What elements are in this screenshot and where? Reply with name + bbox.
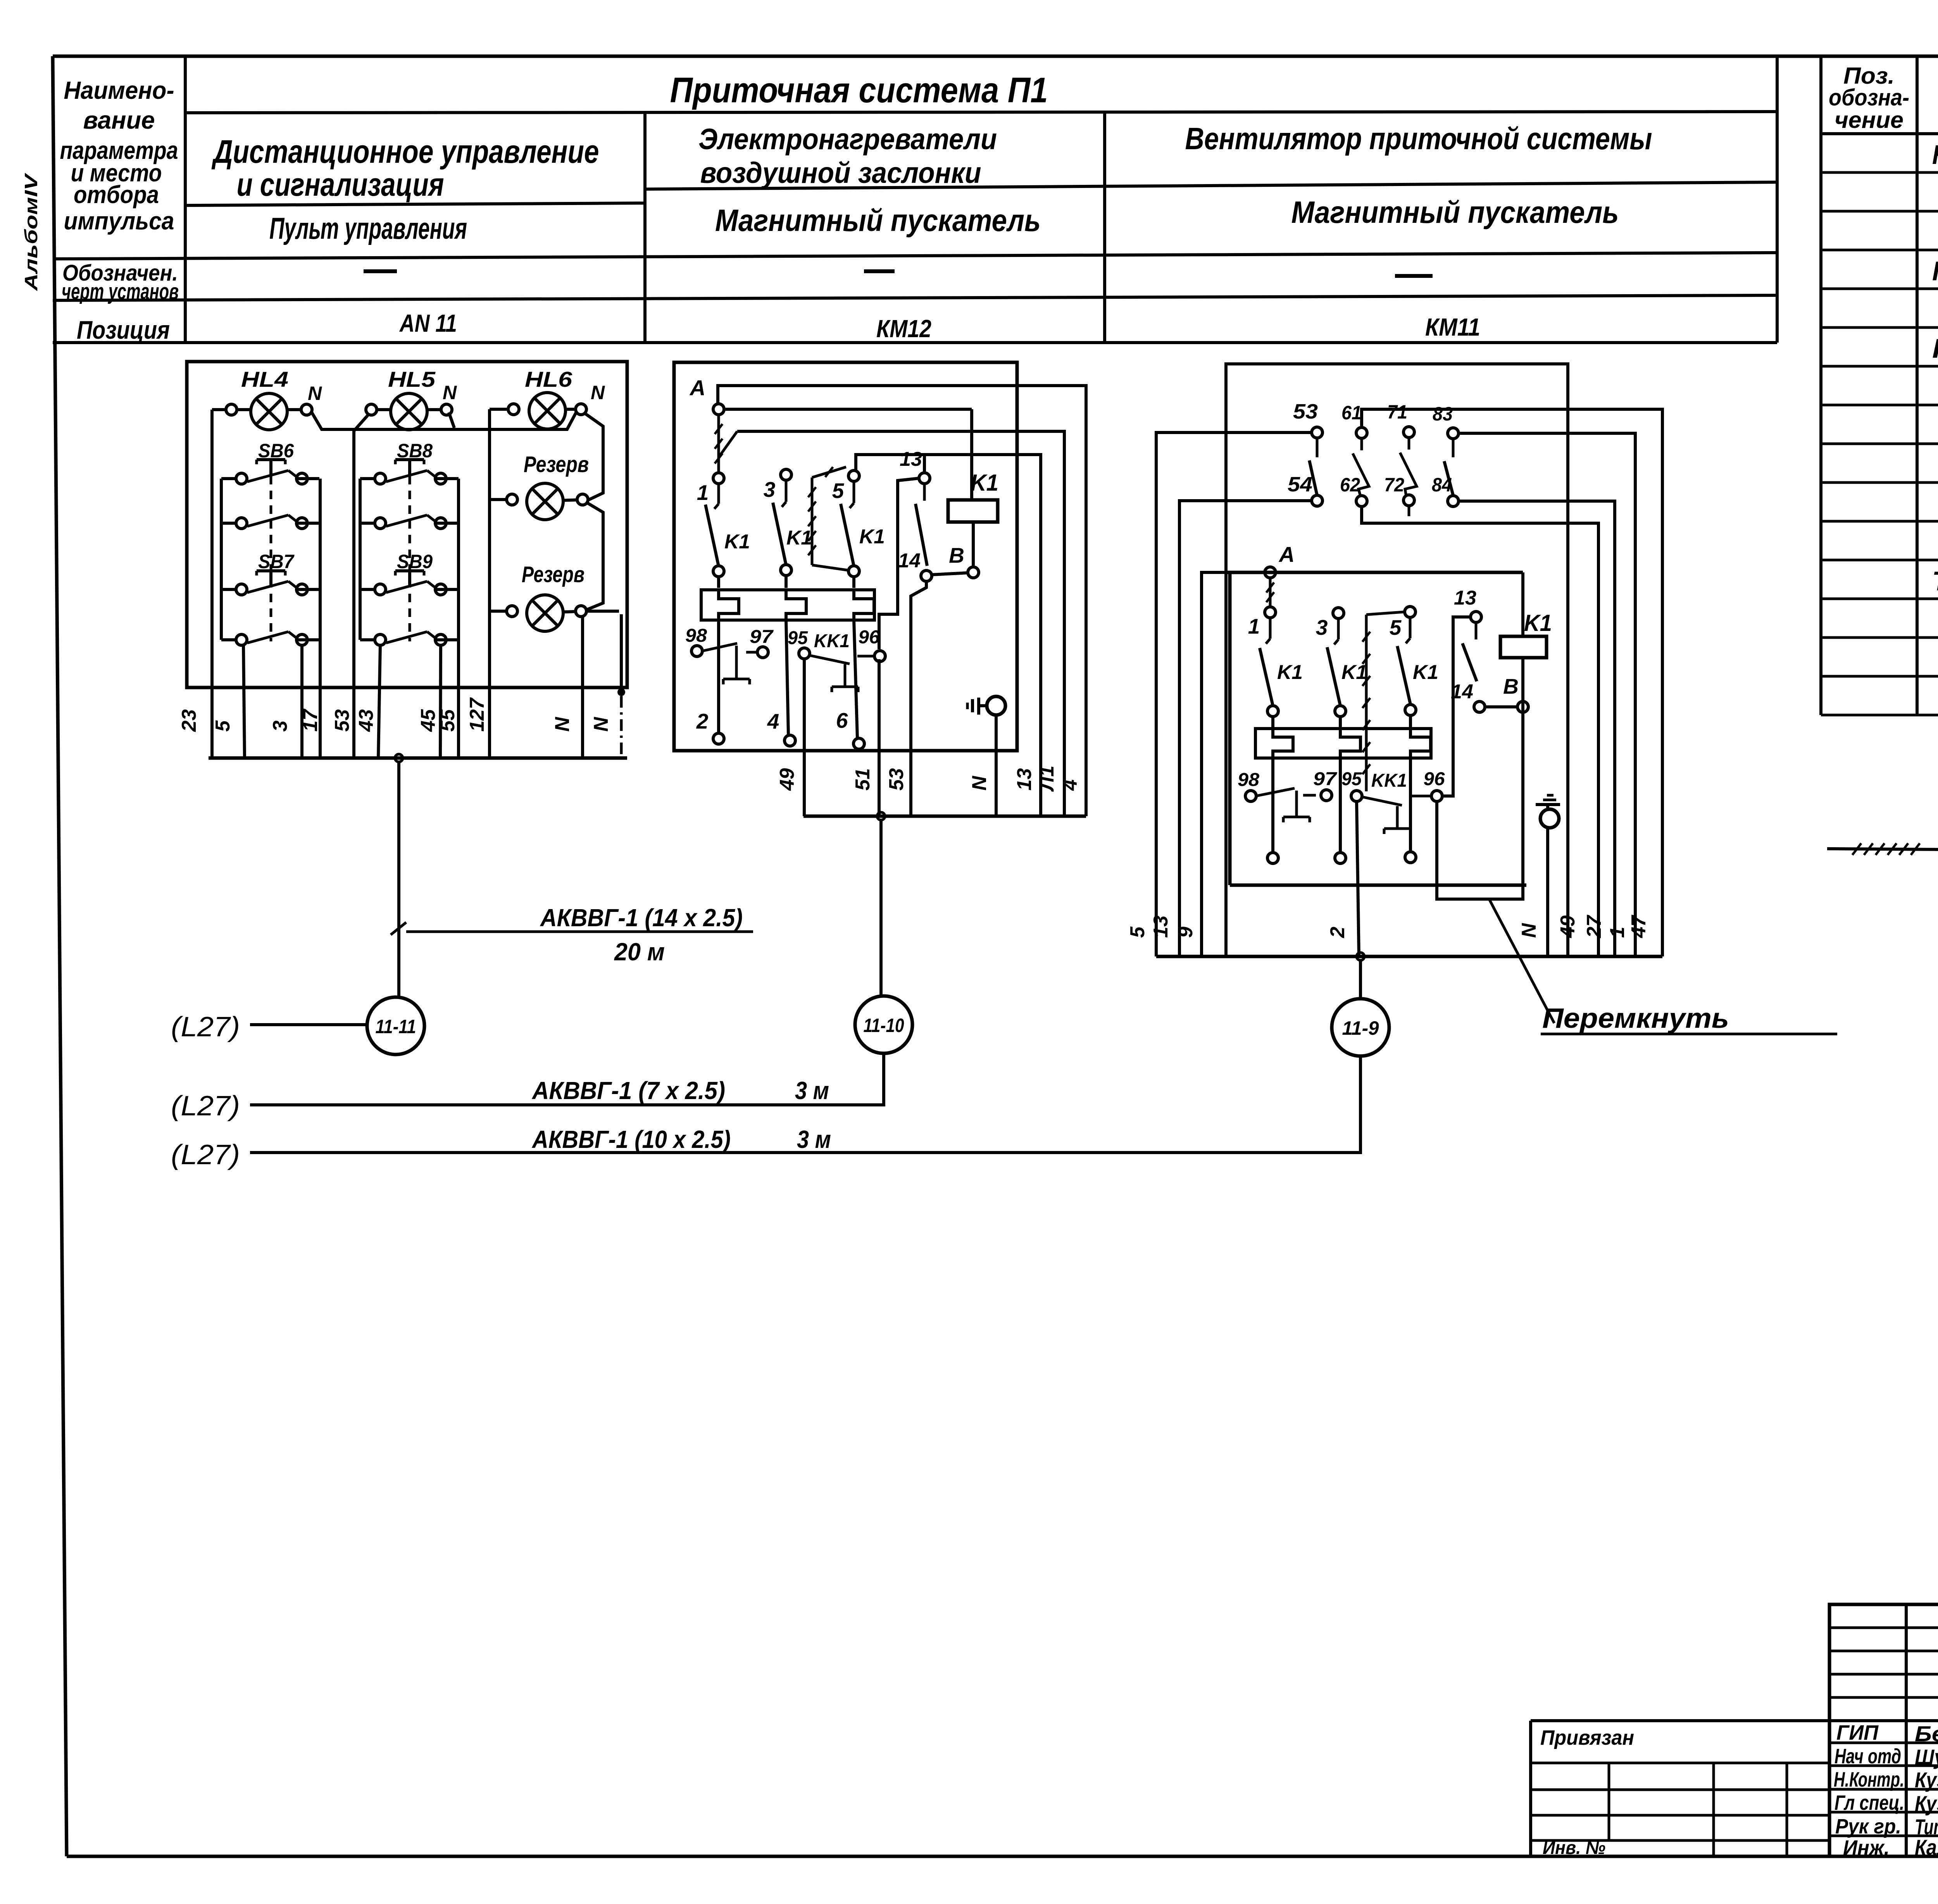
- SB9 contact row 2: [375, 634, 386, 645]
- svg-text:43: 43: [355, 709, 378, 732]
- svg-text:SB7: SB7: [258, 551, 295, 572]
- phase 1 tail to terminal 2: [717, 620, 720, 733]
- sheet frame: [53, 56, 67, 1856]
- svg-text:Наимено-: Наимено-: [64, 76, 174, 104]
- svg-text:Вентилятор приточной системы: Вентилятор приточной системы: [1185, 121, 1652, 156]
- wire: [490, 498, 507, 501]
- svg-text:27: 27: [1583, 915, 1605, 938]
- svg-text:54: 54: [1288, 473, 1312, 496]
- svg-text:53: 53: [331, 709, 353, 732]
- cable circle 11-10: [855, 996, 912, 1053]
- wire: [563, 612, 576, 612]
- svg-text:1: 1: [1248, 614, 1260, 638]
- svg-text:Резерв: Резерв: [522, 562, 585, 587]
- svg-text:Л1: Л1: [1036, 765, 1058, 792]
- svg-text:АКВВГ-1 (10 х 2.5): АКВВГ-1 (10 х 2.5): [531, 1125, 731, 1153]
- svg-text:72: 72: [1384, 474, 1404, 496]
- svg-text:K1: K1: [971, 470, 998, 496]
- junction on bus: [395, 754, 403, 762]
- svg-text:13: 13: [1150, 915, 1172, 938]
- wire 13 loop to 54: [1179, 501, 1312, 956]
- svg-text:Магнитный пускатель: Магнитный пускатель: [715, 203, 1041, 238]
- svg-text:Гл спец.: Гл спец.: [1835, 1791, 1904, 1814]
- ground terminal N block3: [1536, 803, 1560, 806]
- svg-text:5: 5: [832, 479, 845, 503]
- terminal 3: [1333, 608, 1344, 619]
- terminal 14: [1474, 701, 1485, 712]
- actuator KK1 block3: [1396, 806, 1399, 829]
- svg-text:51: 51: [852, 768, 874, 791]
- wire 49 from 95: [803, 658, 806, 816]
- svg-text:61: 61: [1341, 402, 1362, 424]
- header table grid: [184, 56, 187, 343]
- block3 terminal bus: [1156, 955, 1662, 958]
- svg-text:B: B: [949, 543, 964, 567]
- svg-text:14: 14: [898, 550, 921, 572]
- wire: [566, 408, 576, 411]
- header: dashes: [364, 269, 397, 273]
- svg-text:95: 95: [1341, 769, 1362, 789]
- terminal 62: [1356, 496, 1367, 507]
- thermal relay KK1 heaters block3: [1255, 729, 1431, 758]
- wire: [717, 576, 720, 588]
- svg-text:HL5: HL5: [388, 367, 436, 391]
- svg-text:HL4: HL4: [241, 367, 288, 391]
- svg-text:Инв. №: Инв. №: [1543, 1838, 1605, 1858]
- contactor pole K1-3: [1409, 617, 1412, 638]
- pushbutton SB7 actuator: [257, 569, 285, 572]
- terminal A: [713, 404, 724, 415]
- demounted wire A-1 (hatched): [717, 414, 720, 473]
- svg-text:отбора: отбора: [74, 181, 159, 208]
- block2 terminal bus: [803, 815, 1086, 818]
- wire 43: [378, 645, 380, 758]
- svg-text:Резерв: Резерв: [524, 452, 589, 477]
- wire: [490, 610, 507, 613]
- actuator 98-97 block3: [1295, 791, 1298, 817]
- junction on bus block2: [877, 812, 885, 820]
- block2 enclosure box: [674, 362, 1017, 751]
- svg-text:АльбомIV: АльбомIV: [21, 173, 41, 291]
- svg-text:KK1: KK1: [814, 631, 850, 651]
- wire 3: [300, 645, 303, 758]
- phase 2 tail to terminal 4: [786, 620, 788, 735]
- reserve lamp 1 right terminal: [577, 494, 588, 505]
- svg-text:A: A: [1278, 542, 1295, 567]
- switch 61-62: [1353, 453, 1369, 496]
- Привязан table: [1529, 1721, 1532, 1856]
- svg-text:17: 17: [299, 708, 322, 732]
- svg-text:Электронагреватели: Электронагреватели: [698, 123, 997, 156]
- switch 71-72: [1400, 453, 1417, 496]
- terminal B: [1517, 701, 1528, 712]
- terminal 1: [713, 473, 724, 484]
- svg-text:23: 23: [178, 709, 200, 732]
- svg-text:Калмыков: Калмыков: [1915, 1835, 1938, 1859]
- wire: [563, 500, 578, 500]
- svg-text:(L27): (L27): [171, 1011, 240, 1042]
- wire 5 loop to switch 53: [1156, 432, 1312, 956]
- leader line: [1490, 900, 1554, 1023]
- svg-text:Позиция: Позиция: [77, 315, 170, 344]
- svg-text:Труба стальная ГОСТ 10704 -: Труба стальная ГОСТ 10704 - 76*: [1932, 566, 1938, 596]
- svg-text:Провод ПВ1, ГОСТ 6323-79*: Провод ПВ1, ГОСТ 6323-79*: [1932, 256, 1938, 286]
- wire 47 loop from 83: [1458, 433, 1635, 956]
- svg-text:97: 97: [1313, 769, 1338, 789]
- svg-text:черт установ: черт установ: [62, 279, 179, 304]
- terminal A: [1265, 567, 1276, 578]
- svg-text:AN 11: AN 11: [399, 309, 457, 337]
- terminal 54: [1312, 495, 1322, 506]
- svg-text:5: 5: [1126, 926, 1149, 938]
- svg-text:1: 1: [1606, 927, 1629, 938]
- svg-text:4: 4: [767, 709, 779, 733]
- reserve lamp 1 left terminal: [507, 494, 517, 505]
- wire 23 vertical: [210, 410, 214, 758]
- wire 17 right side: [319, 479, 322, 758]
- junction on bus block3: [1357, 953, 1364, 960]
- wire 53 (HL5 feed): [354, 414, 369, 758]
- svg-text:53: 53: [1293, 400, 1318, 423]
- wire N stub right: [586, 610, 619, 613]
- svg-text:2: 2: [1326, 927, 1349, 938]
- svg-text:9: 9: [1174, 927, 1197, 938]
- lamp HL4 feed wire: [212, 408, 226, 411]
- contactor pole K1-3: [853, 481, 855, 503]
- svg-text:Кабели, ГОСТ 1508 - 78 *Е: Кабели, ГОСТ 1508 - 78 *Е: [1932, 333, 1938, 364]
- wire 4 loop (A to cable): [718, 386, 1086, 816]
- wire 127 vertical: [488, 409, 491, 758]
- spec table grid: [1819, 56, 1822, 715]
- lamp HL4 left terminal: [226, 404, 237, 415]
- wire 51 from 96: [878, 659, 881, 816]
- terminal 53: [1312, 427, 1322, 438]
- wire 55 right side: [457, 479, 460, 758]
- drop wire to cable 11-11: [397, 762, 400, 997]
- wire 1 loop from 84: [1458, 501, 1615, 956]
- aux contact 13-14: [916, 504, 927, 566]
- wire: [376, 408, 391, 411]
- svg-text:11-11: 11-11: [376, 1016, 416, 1037]
- wire 14-B: [931, 573, 968, 575]
- block1 terminal bus: [209, 756, 627, 760]
- svg-text:84: 84: [1432, 474, 1452, 496]
- svg-text:3 м: 3 м: [797, 1125, 831, 1153]
- pushbutton SB8 actuator: [395, 458, 424, 461]
- phase 3 tail to terminal 6: [854, 620, 857, 738]
- svg-text:воздушной заслонки: воздушной заслонки: [700, 157, 981, 190]
- svg-text:98: 98: [1238, 770, 1259, 790]
- svg-text:K1: K1: [1341, 661, 1367, 684]
- svg-text:Белоус: Белоус: [1915, 1721, 1938, 1746]
- box right edge / coil chain: [1521, 572, 1524, 636]
- SB6 contact row 2: [236, 518, 247, 529]
- svg-text:62: 62: [1340, 474, 1360, 496]
- terminal 84: [1448, 496, 1459, 507]
- wire 53 from 14: [911, 581, 926, 816]
- SB8 contact row 1: [375, 473, 386, 484]
- svg-text:97: 97: [750, 627, 774, 647]
- svg-text:N: N: [1518, 923, 1540, 938]
- SB7 contact row 1: [236, 584, 247, 595]
- wire 96 to 13: [879, 478, 919, 649]
- aux contact 13-14: [1462, 643, 1477, 681]
- svg-text:N: N: [591, 382, 605, 403]
- svg-text:Магнитный пускатель: Магнитный пускатель: [1291, 195, 1619, 229]
- svg-text:импульса: импульса: [64, 207, 174, 235]
- wire (L27) row2 to 11-10: [250, 1055, 884, 1105]
- svg-text:K1: K1: [724, 531, 750, 553]
- contactor pole K1-1: [1269, 617, 1272, 639]
- wire 14-B: [1485, 705, 1518, 708]
- svg-text:4: 4: [1059, 779, 1081, 791]
- svg-text:2: 2: [696, 709, 709, 733]
- wire A to coil K1: [724, 408, 972, 411]
- svg-text:53: 53: [885, 768, 908, 791]
- svg-text:чение: чение: [1835, 107, 1904, 133]
- cable label line: [406, 930, 753, 933]
- svg-text:11-10: 11-10: [864, 1015, 904, 1036]
- block1 enclosure box: [187, 362, 627, 688]
- svg-text:Кузнецов: Кузнецов: [1915, 1768, 1938, 1792]
- svg-text:N: N: [590, 717, 612, 732]
- lamp HL6: [529, 393, 566, 429]
- svg-text:13: 13: [1454, 587, 1476, 609]
- terminal 61: [1356, 427, 1367, 438]
- contact box left wire: [220, 479, 223, 640]
- jumper diagonal to Л1 line: [719, 431, 737, 457]
- contactor pole K1-1: [717, 483, 720, 504]
- svg-text:A: A: [689, 376, 705, 400]
- wire: [427, 408, 441, 411]
- svg-text:98: 98: [685, 625, 707, 646]
- svg-text:и сигнализация: и сигнализация: [237, 166, 444, 203]
- wire (L27) row3 to 11-9: [250, 1057, 1360, 1153]
- SB8/SB9 link dashed: [409, 476, 411, 641]
- wire B to coil: [972, 522, 975, 567]
- svg-text:Перемкнуть: Перемкнуть: [1542, 1003, 1729, 1034]
- thermal relay KK1 heaters: [701, 590, 874, 620]
- svg-text:K1: K1: [786, 527, 812, 549]
- terminal 83: [1448, 428, 1459, 439]
- svg-text:Рук гр.: Рук гр.: [1835, 1815, 1901, 1838]
- wire 13 top line: [856, 455, 1041, 816]
- terminal 71: [1403, 427, 1414, 438]
- svg-text:14: 14: [1451, 681, 1473, 703]
- svg-text:20 м: 20 м: [614, 938, 665, 966]
- svg-text:АКВВГ-1 (7 х 2.5): АКВВГ-1 (7 х 2.5): [531, 1077, 725, 1104]
- svg-text:K1: K1: [1413, 661, 1438, 684]
- svg-text:127: 127: [466, 697, 488, 732]
- wire: [236, 408, 251, 411]
- wire 45: [440, 645, 441, 758]
- pushbutton SB9 actuator: [395, 569, 424, 572]
- svg-text:6: 6: [836, 708, 848, 732]
- wire: [287, 408, 302, 411]
- svg-text:N: N: [551, 717, 574, 732]
- svg-text:обозна-: обозна-: [1829, 84, 1909, 110]
- svg-text:(L27): (L27): [171, 1091, 240, 1122]
- terminal 13: [919, 473, 930, 484]
- lamp HL4: [251, 393, 287, 430]
- wire 49 outer loop: [1226, 364, 1568, 956]
- lamp HL5 right terminal: [441, 404, 452, 415]
- demounted wire A-1 hatched: [1269, 577, 1272, 607]
- actuator 98-97: [735, 646, 738, 679]
- svg-text:3 м: 3 м: [795, 1077, 829, 1104]
- svg-text:КМ12: КМ12: [876, 315, 931, 343]
- terminal 1: [1265, 607, 1276, 618]
- svg-text:5: 5: [212, 720, 234, 732]
- svg-text:96: 96: [1424, 769, 1445, 789]
- wire 27 loop from 62: [1362, 506, 1598, 956]
- svg-text:96: 96: [859, 627, 880, 648]
- jumper wire (Перемкнуть): [1437, 801, 1523, 899]
- aux contact 98-97 block3: [1245, 791, 1256, 801]
- demounted hatched wire block3: [1365, 615, 1368, 791]
- contactor pole K1-2: [785, 480, 788, 502]
- lamp HL5 left terminal: [366, 404, 377, 415]
- drop wire to cable 11-9: [1359, 960, 1362, 999]
- svg-text:(L27): (L27): [171, 1139, 240, 1170]
- reserve lamp 2 right terminal: [576, 606, 586, 617]
- aux contact 95-96 KK1: [799, 648, 810, 659]
- svg-text:КМ11: КМ11: [1425, 313, 1480, 341]
- wire 5: [243, 645, 245, 758]
- svg-text:Инж.: Инж.: [1843, 1836, 1890, 1859]
- cable circle 11-11: [367, 997, 424, 1055]
- svg-text:N: N: [308, 383, 322, 404]
- stub 72: [1408, 505, 1410, 516]
- svg-text:95: 95: [788, 628, 808, 648]
- reserve lamp 2 left terminal: [507, 606, 517, 617]
- svg-text:47: 47: [1628, 915, 1650, 938]
- svg-text:11-9: 11-9: [1342, 1017, 1379, 1039]
- coil K1: [948, 500, 998, 522]
- wire to 61 top line: [1362, 409, 1662, 956]
- N riser to reserve lamp 2: [586, 503, 603, 610]
- svg-text:3: 3: [269, 720, 291, 732]
- terminal 14: [921, 570, 932, 581]
- svg-text:Привязан: Привязан: [1540, 1726, 1634, 1749]
- svg-text:Пульт управления: Пульт управления: [269, 211, 467, 245]
- svg-text:ГИП: ГИП: [1836, 1721, 1879, 1744]
- svg-text:N: N: [968, 775, 991, 791]
- svg-text:5: 5: [1390, 615, 1402, 639]
- svg-text:N: N: [443, 382, 457, 403]
- svg-text:вание: вание: [83, 106, 155, 134]
- wire A line / box top: [1225, 571, 1523, 574]
- wire 2 from 95: [1357, 801, 1359, 956]
- terminal 3: [781, 469, 791, 480]
- wire 96 to 13: [1442, 617, 1471, 796]
- svg-text:K1: K1: [859, 526, 885, 548]
- cable circle 11-9: [1332, 999, 1389, 1056]
- terminal 5: [1405, 607, 1416, 617]
- title block stamp grid: [1829, 1604, 1938, 1856]
- terminal 72: [1403, 495, 1414, 506]
- lamp HL4 right terminal: [301, 404, 312, 415]
- phase tails to dead terminals: [1271, 758, 1274, 853]
- SB7 contact row 2: [236, 634, 247, 645]
- junction dot N: [620, 614, 623, 689]
- svg-text:Шунский: Шунский: [1915, 1745, 1938, 1769]
- coil K1 block3: [1500, 636, 1547, 658]
- svg-text:Коробка соединительная, ТУ36: Коробка соединительная, ТУ36.1753-75: [1932, 140, 1938, 170]
- svg-text:Кузнецов: Кузнецов: [1915, 1791, 1938, 1816]
- N riser to reserve lamps: [585, 413, 603, 500]
- wire stub HL5 right to N bus: [449, 412, 454, 428]
- legend demount line: [1827, 849, 1938, 849]
- svg-text:K1: K1: [1277, 661, 1303, 684]
- svg-text:3: 3: [1316, 615, 1328, 639]
- demounted hatched wire (pole3): [811, 477, 814, 565]
- pushbutton SB6 actuator: [257, 458, 285, 461]
- svg-text:HL6: HL6: [525, 367, 572, 391]
- wire 9 loop to A: [1202, 572, 1225, 956]
- svg-text:13: 13: [1013, 768, 1036, 791]
- SB8 contact row 2: [375, 518, 386, 529]
- aux contact 95-96 KK1 block3: [1351, 791, 1362, 801]
- ground terminal N: [966, 703, 969, 709]
- HL6 left feed: [490, 408, 509, 411]
- contact box left wire: [359, 479, 362, 640]
- terminal 13: [1471, 612, 1481, 622]
- drop wire to cable 11-10: [879, 820, 883, 996]
- svg-text:1: 1: [697, 481, 709, 505]
- dash-dot demounted N tail: [620, 696, 623, 758]
- svg-text:SB9: SB9: [397, 551, 433, 572]
- svg-text:Н.Контр.: Н.Контр.: [1834, 1768, 1904, 1791]
- svg-text:55: 55: [436, 709, 459, 732]
- svg-text:49: 49: [1557, 915, 1579, 938]
- cable slash mark: [391, 922, 406, 935]
- stub 13 terminal: [923, 455, 926, 473]
- svg-text:KK1: KK1: [1371, 770, 1407, 791]
- reserve lamp 2: [527, 595, 563, 631]
- svg-text:Дистанционное управление: Дистанционное управление: [212, 133, 599, 170]
- contactor pole K1-2: [1337, 618, 1340, 639]
- terminal 5: [848, 470, 859, 481]
- svg-text:АКВВГ-1 (14 х 2.5): АКВВГ-1 (14 х 2.5): [540, 904, 743, 932]
- block3 enclosure box: [1228, 572, 1232, 885]
- SB6 contact row 1: [236, 473, 247, 484]
- lamp HL6 right terminal: [576, 404, 586, 415]
- SB6/SB7 link dashed: [270, 476, 272, 641]
- lamp HL6 left terminal: [508, 404, 519, 415]
- SB9 contact row 1: [375, 584, 386, 595]
- svg-text:3: 3: [764, 477, 776, 501]
- svg-text:13: 13: [900, 448, 922, 470]
- actuator KK1: [844, 664, 847, 687]
- terminal B: [968, 567, 979, 578]
- svg-text:B: B: [1503, 674, 1519, 698]
- reserve lamp 1: [527, 483, 563, 520]
- svg-text:83: 83: [1433, 403, 1453, 425]
- svg-text:Приточная система П1: Приточная система П1: [670, 71, 1048, 110]
- aux contact 98-97: [691, 646, 702, 656]
- svg-text:K1: K1: [1524, 610, 1552, 636]
- N bus polyline block1: [311, 412, 576, 429]
- lamp HL5: [391, 393, 427, 430]
- switch 53-54: [1316, 438, 1319, 457]
- wire Л1 loop: [737, 431, 1064, 816]
- wire (L27)-11-11: [250, 1023, 367, 1026]
- switch 83-84: [1444, 461, 1453, 495]
- wire N drop: [581, 616, 584, 758]
- svg-text:71: 71: [1387, 401, 1407, 423]
- svg-text:49: 49: [776, 768, 798, 791]
